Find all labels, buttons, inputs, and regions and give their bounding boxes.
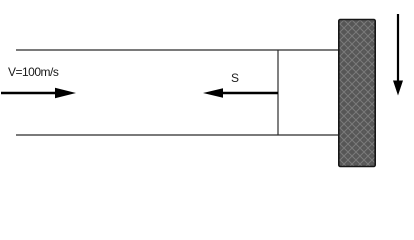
svg-text:S: S — [231, 71, 239, 85]
wire vertical divider — [277, 50, 279, 136]
arrow S (pointing left) — [203, 88, 278, 98]
wall (hatched block) — [339, 20, 375, 167]
arrow down (right of wall) — [393, 14, 403, 96]
wire top tube line — [16, 49, 338, 51]
wire bottom tube line — [16, 134, 338, 136]
arrow V (velocity, pointing right) — [1, 88, 76, 98]
svg-text:V=100m/s: V=100m/s — [8, 65, 59, 79]
